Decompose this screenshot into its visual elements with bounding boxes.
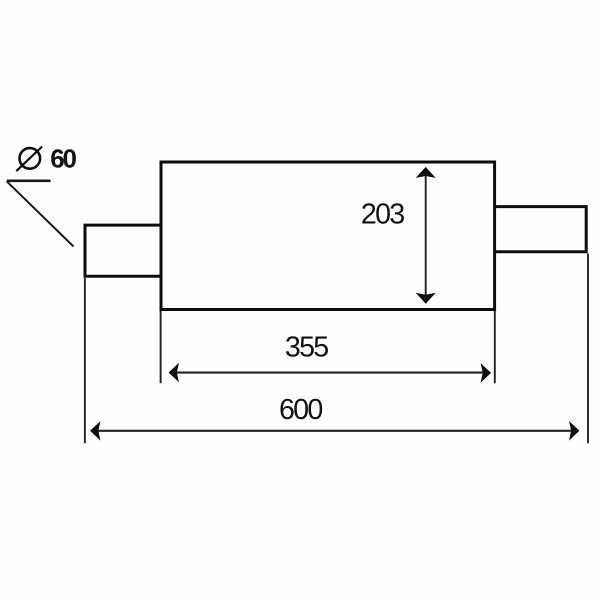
leader landing line	[7, 180, 51, 183]
dim 203 arrowhead bottom	[416, 293, 436, 304]
svg-text:600: 600	[279, 394, 322, 426]
svg-text:203: 203	[361, 199, 404, 231]
diameter symbol slash	[16, 147, 42, 172]
dim 355 line	[175, 372, 484, 374]
dim 355 extension line left	[160, 311, 162, 383]
dim 203 arrowhead top	[416, 167, 436, 178]
inlet pipe (left)	[85, 225, 161, 276]
dim 355 extension line right	[494, 311, 496, 383]
dim 355 arrowhead left	[169, 363, 179, 383]
diameter symbol circle	[20, 148, 41, 169]
dim 600 line	[96, 430, 573, 432]
outlet pipe (right)	[495, 207, 587, 252]
svg-text:60: 60	[50, 143, 76, 173]
dim 203 line	[425, 172, 427, 298]
dim 600 extension line left	[84, 278, 86, 443]
dim 600 extension line right	[587, 254, 589, 444]
dim 600 arrowhead right	[569, 421, 579, 441]
muffler body	[161, 162, 495, 310]
dim 600 arrowhead left	[90, 421, 100, 441]
leader diagonal line	[7, 181, 74, 246]
dim 355 arrowhead right	[481, 363, 491, 383]
svg-text:355: 355	[285, 331, 328, 363]
